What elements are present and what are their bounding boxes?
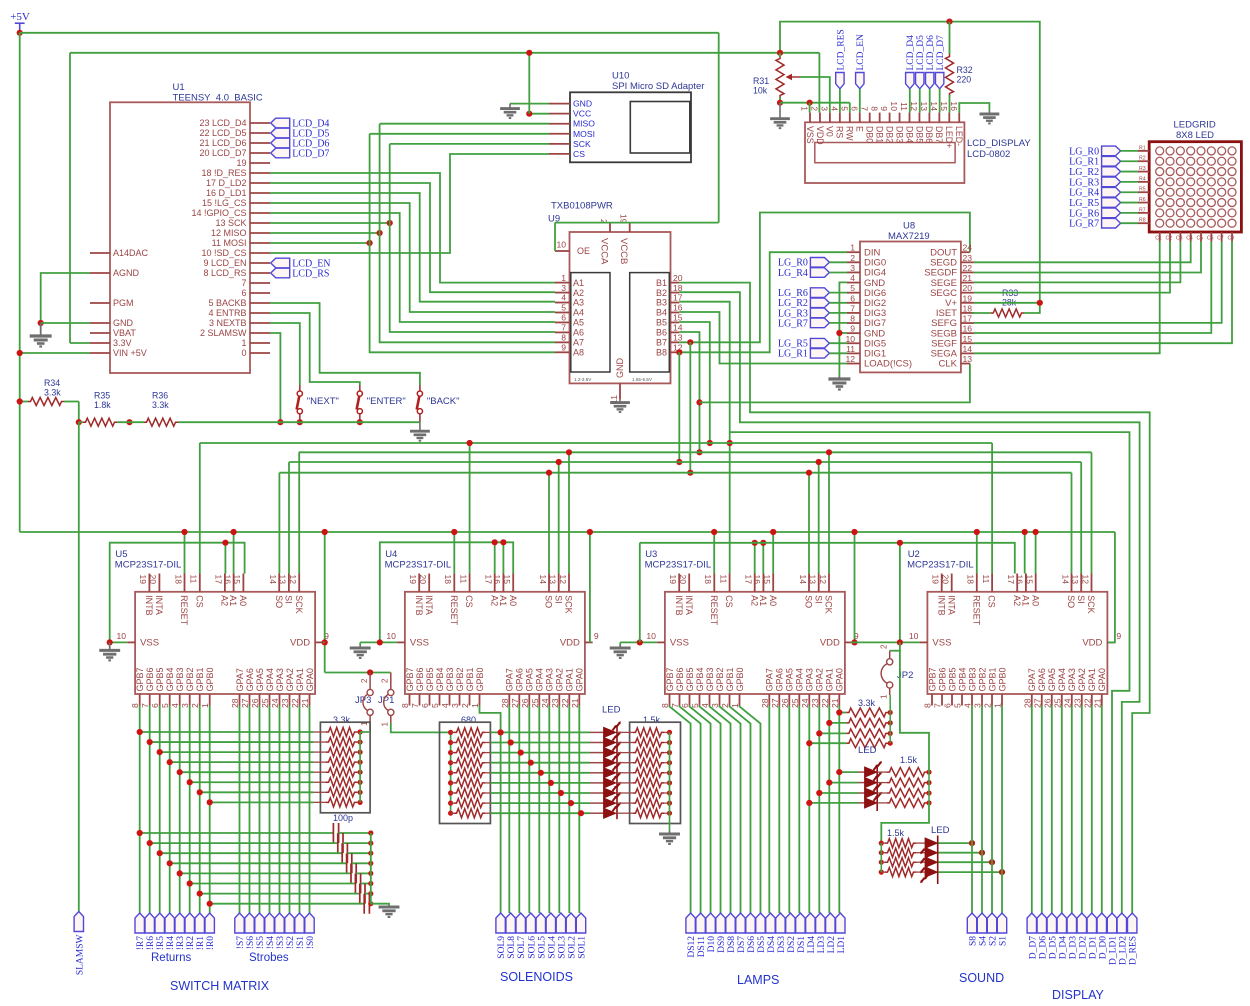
U4 pin 1 GPB0 — [479, 694, 481, 706]
svg-text:3.3k: 3.3k — [44, 388, 61, 398]
flag LG_R2 — [1102, 167, 1121, 177]
svg-text:U4: U4 — [385, 549, 397, 560]
svg-text:!R4: !R4 — [166, 936, 176, 951]
wire jumper feed line — [325, 672, 391, 674]
svg-text:5: 5 — [839, 106, 849, 111]
lamp 1.5k resistor 3 — [877, 792, 887, 794]
svg-text:28: 28 — [760, 698, 770, 708]
flag LD1 — [836, 913, 845, 933]
svg-text:4: 4 — [561, 293, 566, 303]
LCD pin 1 VSS — [809, 113, 811, 123]
U10 pin MISO — [549, 123, 570, 125]
wire U3 A1 tie — [762, 543, 764, 574]
svg-text:D_D3: D_D3 — [1068, 936, 1078, 959]
svg-text:!R7: !R7 — [136, 936, 146, 951]
svg-text:6: 6 — [420, 703, 430, 708]
sound LED 2 — [925, 848, 938, 858]
sound LED 3 — [925, 857, 938, 867]
junction U4 SCK — [566, 449, 572, 455]
junction at +5V rail top — [17, 30, 23, 36]
wire U5 VSS to ground — [110, 641, 128, 643]
svg-text:DS6: DS6 — [747, 936, 757, 953]
U8 pin 12 LOAD(!CS) — [847, 363, 860, 365]
U5 pin 16 A1 — [233, 574, 235, 592]
LED D5 — [604, 768, 617, 778]
ground at cap network — [379, 905, 400, 917]
svg-text:GPB1: GPB1 — [725, 667, 735, 691]
svg-text:Strobes: Strobes — [249, 952, 289, 964]
flag DS12 — [686, 913, 695, 933]
svg-text:LD2: LD2 — [827, 936, 837, 954]
svg-text:10 !SD_CS: 10 !SD_CS — [201, 248, 246, 258]
svg-text:20: 20 — [673, 273, 683, 283]
svg-text:LEDGRID: LEDGRID — [1174, 120, 1216, 131]
junction U4 SI — [556, 459, 562, 465]
svg-text:DS1: DS1 — [797, 936, 807, 953]
flag LCD_D7 — [271, 148, 290, 158]
svg-text:SI: SI — [553, 595, 563, 604]
U5 pin 9 VDD — [315, 641, 323, 643]
svg-text:VIN +5V: VIN +5V — [113, 348, 147, 358]
LEDGRID pin R3 — [1138, 171, 1149, 173]
svg-text:!S7: !S7 — [236, 936, 246, 949]
svg-text:MCP23S17-DIL: MCP23S17-DIL — [645, 560, 712, 571]
svg-text:B3: B3 — [656, 298, 667, 308]
wire U5 SO drop — [278, 473, 280, 574]
junction U3 A0 — [770, 529, 776, 535]
RN 1.5k resistor row 7 — [617, 792, 633, 794]
U10 pin SCK — [549, 143, 570, 145]
svg-text:A3: A3 — [573, 298, 584, 308]
svg-text:6: 6 — [850, 293, 855, 303]
flag LG_R6 — [810, 288, 829, 298]
svg-text:9: 9 — [879, 106, 889, 111]
U3 pin 21 GPA0 — [838, 694, 840, 706]
svg-text:INTB: INTB — [674, 595, 684, 616]
svg-text:14: 14 — [963, 344, 973, 354]
lamp LED 1 — [839, 771, 858, 773]
U2 pin 24 GPA3 — [1071, 694, 1073, 706]
svg-text:R32: R32 — [957, 65, 973, 75]
svg-text:22 LCD_D5: 22 LCD_D5 — [199, 128, 246, 138]
wire U2 VSS line — [855, 641, 920, 643]
junction NEXT common — [297, 419, 303, 425]
lamp 3.3k resistor 4 — [809, 742, 846, 744]
junction U3 SCK — [826, 449, 832, 455]
svg-text:GPB7: GPB7 — [405, 667, 415, 691]
svg-text:VDD: VDD — [1082, 638, 1102, 649]
svg-text:0: 0 — [241, 348, 246, 358]
svg-text:GPA4: GPA4 — [795, 668, 805, 691]
svg-text:D_D6: D_D6 — [1038, 936, 1048, 959]
ground between U4 and U3 — [619, 642, 621, 645]
svg-text:LCD_EN: LCD_EN — [856, 34, 866, 71]
svg-text:20: 20 — [963, 283, 973, 293]
U8 pin 5 DIG6 — [847, 292, 860, 294]
flag S4 — [977, 913, 986, 933]
svg-text:GPA7: GPA7 — [235, 668, 245, 691]
svg-text:20 LCD_D7: 20 LCD_D7 — [199, 148, 246, 158]
svg-text:DS12: DS12 — [687, 936, 697, 958]
capacitor 100p row 8 — [210, 903, 365, 905]
U1 pin 21 LCD_D6 — [250, 142, 270, 144]
svg-text:LG_R7: LG_R7 — [778, 318, 808, 329]
LCD pin 12 DB5 — [918, 113, 920, 123]
svg-text:1.5k: 1.5k — [643, 715, 661, 725]
svg-text:!S3: !S3 — [276, 936, 286, 949]
junction U5 VSS — [107, 639, 113, 645]
flag D_D1 — [1087, 913, 1096, 933]
U4 pin 12 SCK — [568, 574, 570, 592]
svg-text:GPA3: GPA3 — [1067, 668, 1077, 691]
junction gnd tie — [897, 540, 903, 546]
LEDGRID pin R4 — [1138, 181, 1149, 183]
U2 pin 11 CS — [991, 574, 993, 592]
U4 pin 19 INTB — [418, 574, 420, 592]
U9 pin 17 B3 — [671, 302, 680, 304]
svg-text:R6: R6 — [1139, 197, 1146, 203]
LCD pin 14 DB7 — [938, 113, 940, 123]
ground between U5 and U4 — [359, 642, 361, 645]
junction MISO — [377, 230, 383, 236]
svg-text:GPB2: GPB2 — [185, 667, 195, 691]
svg-text:DISPLAY: DISPLAY — [1052, 988, 1105, 1002]
junction SCK — [387, 220, 393, 226]
svg-text:25: 25 — [790, 698, 800, 708]
svg-text:S8: S8 — [969, 936, 979, 946]
U2 pin 5 GPB4 — [961, 694, 963, 706]
wire U8 segment to LEDGRID column — [974, 242, 1211, 334]
svg-text:U8: U8 — [903, 221, 915, 232]
flag SOL1 — [576, 913, 585, 933]
svg-text:A1: A1 — [758, 595, 768, 606]
wire U3 VDD stub link — [851, 641, 855, 643]
U8 pin 1 DIN — [847, 251, 860, 253]
svg-text:7: 7 — [933, 703, 943, 708]
svg-text:GPB7: GPB7 — [135, 667, 145, 691]
flag SOL3 — [556, 913, 565, 933]
svg-text:GND: GND — [573, 99, 592, 109]
flag !R0 — [205, 913, 214, 933]
svg-text:R31: R31 — [753, 76, 769, 86]
U9 pin 19 VCCB — [629, 223, 631, 232]
RN 680 resistor row 3 — [448, 750, 453, 755]
wire LED- to ground — [959, 103, 989, 113]
flag !R4 — [165, 913, 174, 933]
svg-text:5: 5 — [430, 703, 440, 708]
svg-text:16 D_LD1: 16 D_LD1 — [206, 188, 247, 198]
U1 pin 17 D_LD2 — [250, 182, 270, 184]
wire RW drop — [849, 103, 851, 113]
U5 pin 27 GPA6 — [249, 694, 251, 706]
svg-text:DB4: DB4 — [904, 126, 914, 143]
wire OE jog — [554, 223, 556, 251]
junction U3 VDD pin — [851, 639, 857, 645]
svg-text:13: 13 — [548, 575, 558, 585]
ground at solenoid RN — [659, 831, 680, 844]
svg-text:C3: C3 — [1176, 236, 1183, 242]
capacitor 100p row 7 — [200, 893, 360, 895]
svg-text:5: 5 — [953, 703, 963, 708]
svg-text:12: 12 — [845, 354, 855, 364]
svg-text:SCK: SCK — [294, 595, 304, 614]
U4 pin 9 VDD — [585, 641, 593, 643]
RN 680 resistor row 9 — [448, 811, 453, 816]
svg-text:LG_R1: LG_R1 — [778, 349, 808, 360]
wire U1 3.3V to riser — [70, 342, 90, 344]
flag SOL7 — [516, 913, 525, 933]
U2 pin 9 VDD — [1107, 641, 1115, 643]
U2 pin 4 GPB3 — [971, 694, 973, 706]
svg-text:SOL8: SOL8 — [507, 936, 517, 959]
svg-text:26: 26 — [780, 698, 790, 708]
wire U8 segment to LEDGRID column — [974, 242, 1191, 263]
svg-text:8: 8 — [130, 703, 140, 708]
ground at U9 GND — [610, 400, 630, 412]
flag DS8 — [726, 913, 735, 933]
svg-text:GPA3: GPA3 — [545, 668, 555, 691]
svg-text:SI: SI — [1076, 595, 1086, 604]
flag LG_R0 — [810, 258, 829, 268]
svg-text:24: 24 — [1062, 698, 1072, 708]
svg-text:1: 1 — [241, 338, 246, 348]
ground under BACK switch — [410, 422, 430, 440]
wire U3 VDD riser — [854, 532, 856, 642]
svg-text:SO: SO — [1066, 595, 1076, 608]
svg-text:A2: A2 — [1012, 595, 1022, 606]
svg-text:SOL3: SOL3 — [557, 936, 567, 959]
junction R31 bottom — [777, 100, 783, 106]
wire U5 SCK drop — [298, 452, 300, 573]
svg-text:A1: A1 — [498, 595, 508, 606]
U1 pin GND — [90, 322, 110, 324]
flag LG_R6 — [1102, 208, 1121, 218]
U3 pin 5 GPB4 — [699, 694, 701, 706]
svg-text:E: E — [855, 126, 865, 132]
U1 pin 16 D_LD1 — [250, 192, 270, 194]
U1 pin VIN +5V — [90, 352, 110, 354]
svg-text:13: 13 — [963, 354, 973, 364]
LED D6 — [604, 778, 617, 788]
U1 pin 19 — [250, 162, 270, 164]
svg-text:C7: C7 — [1217, 236, 1224, 242]
RN 3.3k resistor row 1 — [140, 731, 314, 733]
U4 pin 17 A2 — [494, 574, 496, 592]
U10 pin VCC — [549, 113, 570, 115]
svg-text:24: 24 — [540, 698, 550, 708]
svg-text:GPB2: GPB2 — [715, 667, 725, 691]
ground at U5 VSS — [99, 642, 120, 660]
wire MOSI — [270, 242, 370, 244]
lamp 3.3k resistor 2 — [829, 722, 846, 724]
svg-text:28: 28 — [230, 698, 240, 708]
U1 pin A14DAC — [90, 252, 110, 254]
svg-text:2: 2 — [880, 644, 889, 649]
svg-text:VDD: VDD — [815, 126, 825, 145]
svg-text:GPB6: GPB6 — [145, 667, 155, 691]
svg-text:GPA2: GPA2 — [1077, 668, 1087, 691]
U8 pin 23 SEGD — [961, 261, 974, 263]
U5 pin 21 GPA0 — [309, 694, 311, 706]
junction U4 SO — [546, 470, 552, 476]
svg-text:24: 24 — [800, 698, 810, 708]
wire U2 SI drop — [1080, 462, 1082, 574]
bus wire +5V y=532 — [20, 531, 1115, 533]
svg-text:LED+: LED+ — [944, 126, 954, 148]
svg-text:19: 19 — [138, 575, 148, 585]
U9 pin 18 B2 — [671, 292, 680, 294]
U1 pin 8 LCD_RS — [250, 272, 270, 274]
U1 pin 14 !GPIO_CS — [250, 212, 270, 214]
wire U3 A0 drop — [772, 532, 774, 574]
U5 pin 23 GPA2 — [289, 694, 291, 706]
RN 680 resistor row 4 — [448, 760, 453, 765]
svg-text:GPB4: GPB4 — [165, 667, 175, 691]
U2 pin 8 GPB7 — [931, 694, 933, 706]
svg-text:14: 14 — [1060, 575, 1070, 585]
wire U5 RESET drop — [184, 532, 186, 574]
U3 pin 17 A2 — [754, 574, 756, 592]
svg-text:23: 23 — [550, 698, 560, 708]
junction VIN +5V — [17, 350, 23, 356]
wire U8 GND pins to ground — [839, 282, 847, 376]
junction R31 top — [777, 50, 783, 56]
RN 1.5k resistor row 8 — [617, 802, 633, 804]
svg-text:!R0: !R0 — [206, 936, 216, 951]
svg-text:18: 18 — [966, 575, 976, 585]
svg-text:SOL5: SOL5 — [537, 936, 547, 959]
svg-text:RESET: RESET — [179, 595, 189, 626]
svg-text:16: 16 — [1015, 575, 1025, 585]
svg-text:26: 26 — [1042, 698, 1052, 708]
U4 pin 7 GPB6 — [419, 694, 421, 706]
U8 pin 21 SEGE — [961, 282, 974, 284]
svg-text:CS: CS — [464, 595, 474, 608]
svg-text:C8: C8 — [1228, 236, 1235, 242]
flag DS6 — [746, 913, 755, 933]
flag D_RES — [1128, 913, 1137, 933]
flag LG_R5 — [1102, 198, 1121, 208]
svg-text:SCK: SCK — [573, 139, 591, 149]
wire +5V left vertical — [19, 33, 21, 532]
junction U8 GND pin9 — [836, 330, 842, 336]
U8 pin 3 DIG4 — [847, 271, 860, 273]
lamp LED 4 — [809, 802, 858, 804]
RN 1.5k resistor row 3 — [617, 752, 633, 754]
svg-text:GPA2: GPA2 — [285, 668, 295, 691]
wire B5 to CS bus — [679, 322, 710, 443]
junction R34 left — [17, 398, 23, 404]
wire U5 CS drop — [199, 443, 201, 574]
U1 pin 2 SLAMSW — [250, 332, 270, 334]
capacitor 100p row 6 — [190, 883, 356, 885]
svg-text:GPA6: GPA6 — [245, 668, 255, 691]
svg-text:SPI Micro SD Adapter: SPI Micro SD Adapter — [612, 81, 704, 92]
wire U3 gnd riser — [639, 543, 641, 643]
U2 pin 22 GPA1 — [1091, 694, 1093, 706]
wire MOSI vertical to TXB A8 — [370, 134, 555, 352]
U2 pin 13 SI — [1080, 574, 1082, 592]
svg-text:7: 7 — [140, 703, 150, 708]
svg-text:A14DAC: A14DAC — [113, 248, 149, 258]
junction U2 RESET — [974, 529, 980, 535]
svg-text:"NEXT": "NEXT" — [307, 396, 339, 407]
flag LCD_D6 — [271, 138, 290, 148]
U4 pin 2 GPB1 — [469, 694, 471, 706]
svg-text:GPA7: GPA7 — [765, 668, 775, 691]
ground at R31 — [770, 103, 790, 128]
wire LG_R2 to grid — [1121, 171, 1138, 173]
svg-text:3 NEXTB: 3 NEXTB — [209, 318, 247, 328]
svg-text:GPB3: GPB3 — [445, 667, 455, 691]
lamp 3.3k rail to JP2 — [889, 695, 891, 743]
LCD pin 15 LED+ — [948, 113, 950, 123]
U3 pin 16 A1 — [762, 574, 764, 592]
flag !S4 — [265, 913, 274, 933]
U3 pin 26 GPA5 — [788, 694, 790, 706]
wire U4 A2 tie — [494, 542, 496, 573]
junction U3 A2 — [752, 540, 758, 546]
flag D_D0 — [1097, 913, 1106, 933]
ground at LCD LED- — [980, 110, 1000, 123]
wire U5 A2 tie — [224, 543, 226, 574]
svg-text:D_D2: D_D2 — [1078, 936, 1088, 959]
flag DS2 — [786, 913, 795, 933]
svg-text:GPB3: GPB3 — [175, 667, 185, 691]
svg-text:D_LD2: D_LD2 — [1118, 936, 1128, 965]
svg-text:VSS: VSS — [670, 638, 689, 649]
svg-text:"BACK": "BACK" — [427, 396, 460, 407]
U9 pin 11 GND — [619, 383, 621, 399]
svg-text:VSS: VSS — [140, 638, 159, 649]
svg-text:C6: C6 — [1207, 236, 1214, 242]
wire R34 to R35 — [78, 402, 80, 423]
svg-text:GPA4: GPA4 — [1057, 668, 1067, 691]
svg-text:DS5: DS5 — [757, 936, 767, 953]
flag LCD_D5 — [271, 128, 290, 138]
svg-text:2: 2 — [810, 106, 820, 111]
svg-text:10k: 10k — [753, 86, 768, 96]
svg-text:8: 8 — [850, 314, 855, 324]
svg-text:GPA5: GPA5 — [1047, 668, 1057, 691]
svg-text:24: 24 — [963, 243, 973, 253]
svg-text:A1: A1 — [1021, 595, 1031, 606]
svg-text:SOUND: SOUND — [959, 971, 1004, 985]
LEDGRID pin C1 — [1159, 232, 1161, 242]
svg-text:!S4: !S4 — [266, 936, 276, 949]
wire D_LD1 to TXB A3 — [270, 193, 555, 302]
wire U4 VDD riser — [589, 532, 591, 642]
junction U4 A1 — [500, 539, 506, 545]
svg-text:6: 6 — [150, 703, 160, 708]
flag LG_R1 — [810, 349, 829, 359]
wire LG_R5 to grid — [1121, 202, 1138, 204]
svg-text:INTA: INTA — [154, 595, 164, 615]
svg-text:+5V: +5V — [10, 11, 30, 23]
wire U4 VDD stub link — [589, 641, 592, 643]
svg-text:R34: R34 — [44, 378, 60, 388]
svg-text:25: 25 — [260, 698, 270, 708]
flag SOL5 — [536, 913, 545, 933]
svg-text:VCCB: VCCB — [618, 238, 629, 264]
switch NEXT — [299, 385, 301, 391]
flag LD3 — [816, 913, 825, 933]
LEDGRID pin C5 — [1200, 232, 1202, 242]
svg-text:680: 680 — [461, 715, 476, 725]
svg-text:15: 15 — [1025, 575, 1035, 585]
svg-text:7: 7 — [850, 303, 855, 313]
flag !S7 — [235, 913, 244, 933]
